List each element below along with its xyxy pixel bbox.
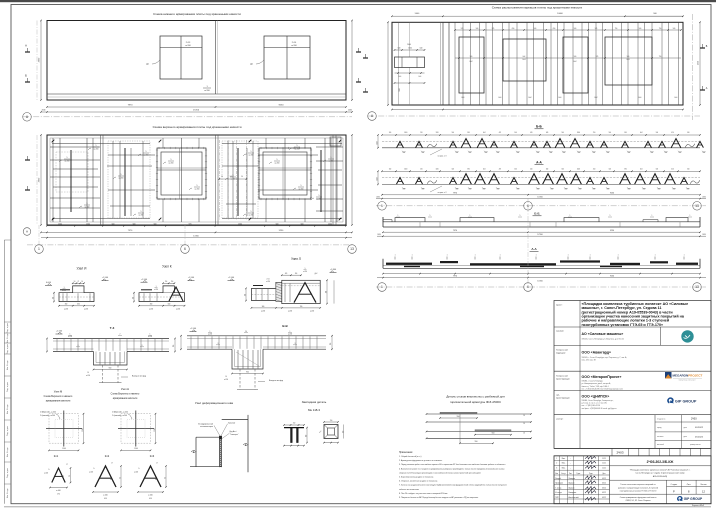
svg-text:ш 200: ш 200	[176, 308, 180, 310]
svg-text:ш 200: ш 200	[84, 308, 88, 310]
svg-text:Кл2: Кл2	[578, 152, 581, 154]
node L hatched joint strip	[276, 282, 282, 301]
svg-text:2030: 2030	[42, 110, 46, 112]
strip A-A band	[382, 170, 700, 172]
svg-text:390: 390	[467, 132, 470, 134]
plan 2 left vertical dim	[40, 135, 42, 225]
svg-text:Б-Б: Б-Б	[536, 125, 542, 129]
svg-text:2400: 2400	[407, 44, 411, 46]
svg-text:Кл1: Кл1	[628, 152, 631, 154]
right plan top dimension	[392, 15, 683, 17]
svg-text:17: 17	[111, 463, 113, 465]
svg-text:Узел М: Узел М	[54, 390, 62, 394]
svg-text:250: 250	[420, 132, 423, 134]
svg-text:1: 1	[381, 285, 383, 289]
svg-text:9230: 9230	[610, 275, 614, 277]
svg-text:Шукнин: Шукнин	[569, 487, 575, 489]
svg-text:ш 200: ш 200	[185, 45, 191, 47]
svg-text:Кл2: Кл2	[529, 97, 532, 99]
svg-text:Кл1: Кл1	[517, 152, 520, 154]
svg-text:Кл2: Кл2	[579, 189, 582, 191]
svg-text:390: 390	[624, 169, 627, 171]
svg-text:А19-05539-0043): А19-05539-0043)	[653, 475, 668, 478]
strip A-A stirrup triangles	[396, 178, 403, 185]
svg-text:500: 500	[562, 169, 565, 171]
svg-text:420: 420	[671, 132, 674, 134]
svg-text:Кл1: Кл1	[687, 189, 690, 191]
svg-text:3: 3	[556, 467, 557, 469]
plan 2 axis row A circle	[23, 228, 31, 236]
svg-text:500: 500	[452, 169, 455, 171]
svg-text:ш 200: ш 200	[310, 311, 314, 313]
svg-text:404: 404	[483, 132, 486, 134]
svg-text:1500: 1500	[238, 224, 242, 226]
svg-text:5: 5	[121, 174, 122, 176]
svg-text:11.21: 11.21	[602, 463, 606, 465]
svg-text:пом. 4-Н, ком. 38: пом. 4-Н, ком. 38	[582, 360, 596, 362]
plan 1 middle divider	[215, 21, 217, 95]
beam B-B dims	[383, 231, 700, 233]
svg-text:ш 200: ш 200	[195, 188, 200, 190]
plan 1 vertical axis dashes	[36, 21, 38, 101]
svg-text:5: 5	[87, 203, 88, 205]
node N detail	[121, 414, 151, 444]
svg-text:10000: 10000	[557, 13, 563, 15]
gip group logo (stamp)	[677, 496, 703, 501]
svg-text:Кн3: Кн3	[523, 56, 526, 58]
svg-text:Кл1: Кл1	[639, 97, 642, 99]
svg-text:+1.500: +1.500	[102, 277, 109, 279]
svg-text:38: 38	[62, 476, 64, 478]
svg-text:8. Пол 20 снабдять на участка: 8. Пол 20 снабдять на участках плиты тол…	[399, 492, 448, 495]
svg-text:MEGARONPROJECT: MEGARONPROJECT	[673, 373, 703, 377]
svg-text:Узел деформационного шва: Узел деформационного шва	[195, 401, 233, 405]
svg-text:03.22: 03.22	[602, 487, 606, 489]
svg-text:Кл1: Кл1	[54, 454, 59, 458]
svg-text:ш 200: ш 200	[261, 311, 265, 313]
svg-text:Кл1: Кл1	[499, 97, 502, 99]
svg-text:Инв. N подл.: Инв. N подл.	[7, 488, 9, 498]
strip B-B stirrup triangles	[397, 141, 404, 147]
svg-text:300: 300	[150, 304, 153, 306]
svg-text:ш 200: ш 200	[154, 289, 158, 291]
svg-text:Деталь стыков внахлестку с раз: Деталь стыков внахлестку с разбежкой для	[446, 394, 505, 398]
svg-text:3. Перед началом работ соосно: 3. Перед началом работ соосновбить карка…	[399, 464, 506, 466]
svg-text:13: 13	[695, 285, 699, 289]
svg-text:50: 50	[74, 281, 76, 283]
plan 2 square cross double lines	[179, 148, 181, 199]
svg-text:9230: 9230	[610, 230, 614, 232]
plan 2 outline	[47, 135, 346, 225]
svg-text:Кл1: Кл1	[462, 97, 465, 99]
svg-text:23: 23	[69, 475, 71, 477]
svg-text:ш 200: ш 200	[94, 148, 99, 150]
svg-text:1150: 1150	[436, 169, 439, 171]
svg-text:ш 400: ш 400	[148, 495, 152, 497]
svg-text:6. Опорные, косметные усадбю: 6. Опорные, косметные усадбю не показаны…	[399, 481, 438, 483]
svg-text:600: 600	[77, 304, 80, 306]
svg-text:Кн2: Кн2	[470, 61, 473, 63]
svg-text:16: 16	[523, 415, 525, 417]
beam A-A bold bars	[386, 263, 432, 265]
svg-text:6: 6	[184, 247, 186, 251]
svg-text:525: 525	[461, 28, 464, 30]
svg-text:2t (Верхний) - ш.200: 2t (Верхний) - ш.200	[112, 411, 128, 414]
svg-text:ш 200: ш 200	[275, 162, 280, 164]
svg-text:9230: 9230	[279, 105, 285, 107]
svg-text:ш 400: ш 400	[44, 472, 48, 474]
svg-text:1500: 1500	[58, 224, 62, 226]
node L top dims	[282, 274, 301, 276]
svg-text:500: 500	[627, 56, 630, 58]
svg-text:ш 200: ш 200	[224, 379, 228, 381]
svg-text:А-А: А-А	[531, 247, 537, 251]
svg-text:17: 17	[156, 463, 158, 465]
svg-text:ш 200: ш 200	[144, 154, 149, 156]
plan 2 right end box	[330, 137, 341, 146]
svg-text:4. Выполнение работ по стандб: 4. Выполнение работ по стандбип и армиро…	[399, 468, 505, 470]
svg-text:Листов: Листов	[700, 484, 706, 486]
stamp right: stage-list-sheets	[666, 480, 668, 494]
svg-text:ООО «ЦНИПСК»: ООО «ЦНИПСК»	[582, 395, 610, 399]
svg-text:Кл2: Кл2	[483, 189, 486, 191]
svg-text:Герметик: Герметик	[228, 423, 235, 425]
stage row	[554, 447, 711, 449]
plan 1 axis row A	[23, 116, 352, 118]
plan 2 middle dash-dot band	[218, 140, 220, 220]
title block row dividers	[554, 326, 711, 328]
svg-text:500: 500	[639, 28, 642, 30]
right plan left bay	[398, 22, 400, 105]
svg-text:500: 500	[562, 132, 565, 134]
svg-text:суб-: суб-	[556, 395, 560, 397]
svg-text:1. Общий балльной (м. п.): 1. Общий балльной (м. п.)	[399, 455, 422, 458]
svg-text:ООО «МегаронПроект»: ООО «МегаронПроект»	[582, 375, 622, 379]
svg-text:5: 5	[297, 145, 298, 147]
svg-text:420: 420	[285, 273, 288, 275]
svg-text:1000: 1000	[404, 169, 407, 171]
svg-text:420: 420	[530, 132, 533, 134]
svg-text:03.22: 03.22	[602, 492, 606, 494]
svg-text:Выпуски из фнд: Выпуски из фнд	[269, 379, 284, 382]
svg-text:17200: 17200	[193, 236, 199, 238]
right plan vertical carcass lines	[454, 22, 456, 105]
svg-text:проект:: проект:	[556, 305, 563, 307]
svg-text:Дп2: Дп2	[315, 273, 318, 275]
svg-text:Кл1: Кл1	[456, 152, 459, 154]
svg-text:Разраб.: Разраб.	[555, 478, 562, 480]
svg-text:500: 500	[514, 132, 517, 134]
plan 1 dimension rows	[47, 106, 346, 108]
svg-text:410: 410	[149, 498, 152, 500]
plan 2 bottom dimension rows	[47, 225, 346, 227]
svg-text:340: 340	[546, 169, 549, 171]
node L bottom dims	[251, 307, 320, 309]
svg-text:2Ч03: 2Ч03	[691, 418, 697, 421]
svg-text:Кл2: Кл2	[537, 189, 540, 191]
svg-text:500: 500	[476, 28, 479, 30]
svg-text:по прим. п. 8: по прим. п. 8	[438, 155, 447, 157]
svg-text:17200: 17200	[193, 110, 200, 112]
plan 1 outline	[47, 21, 346, 101]
svg-text:470: 470	[499, 169, 502, 171]
svg-text:Подп. и дата: Подп. и дата	[7, 468, 9, 478]
svg-text:750: 750	[659, 28, 662, 30]
svg-text:1500: 1500	[154, 428, 156, 432]
svg-text:ш 400: ш 400	[56, 490, 60, 492]
beam A-A axis circles	[376, 286, 706, 288]
stamp right: project name cell	[610, 479, 712, 481]
svg-text:Азанбовский: Азанбовский	[569, 496, 579, 499]
svg-text:ш 200: ш 200	[204, 90, 210, 92]
svg-text:1000: 1000	[404, 132, 407, 134]
svg-text:Узел Н: Узел Н	[121, 387, 129, 391]
svg-text:970: 970	[189, 224, 192, 226]
svg-text:дата: дата	[684, 427, 687, 429]
svg-text:Р: Р	[673, 490, 675, 494]
svg-text:03.2022: 03.2022	[695, 436, 704, 438]
svg-text:50: 50	[241, 176, 243, 178]
svg-text:420: 420	[671, 169, 674, 171]
svg-text:ш 200: ш 200	[288, 311, 292, 313]
svg-text:Генеральный: Генеральный	[556, 349, 568, 352]
svg-text:СМР4, Ч1, К2. Узлы. Разрезы: СМР4, Ч1, К2. Узлы. Разрезы	[625, 500, 651, 502]
svg-text:Инв. N подл.: Инв. N подл.	[7, 447, 9, 457]
svg-text:Кл2: Кл2	[497, 189, 500, 191]
svg-text:250: 250	[244, 294, 246, 296]
svg-text:ш 200: ш 200	[85, 206, 90, 208]
svg-text:41: 41	[155, 479, 157, 481]
svg-text:500: 500	[470, 56, 473, 58]
svg-text:Подп. и дата: Подп. и дата	[7, 426, 9, 436]
svg-text:900: 900	[246, 371, 249, 373]
svg-text:А-А: А-А	[536, 160, 542, 164]
svg-text:А: А	[25, 44, 27, 48]
svg-text:1000: 1000	[577, 169, 580, 171]
svg-text:7970: 7970	[453, 275, 457, 277]
plan 2 interior grid	[100, 135, 102, 225]
embedded part elevation	[284, 427, 304, 429]
svg-text:ш 200: ш 200	[86, 375, 90, 377]
svg-text:сборных поля В границах органи: сборных поля В границах организации и со…	[399, 471, 481, 474]
svg-text:1450: 1450	[376, 141, 378, 145]
svg-text:470: 470	[499, 132, 502, 134]
svg-text:Кл1: Кл1	[537, 152, 540, 154]
beam elevation A-A outline	[383, 267, 700, 269]
svg-text:основан: основан	[657, 436, 663, 438]
svg-text:Кл2: Кл2	[679, 152, 682, 154]
svg-text:1: 1	[556, 458, 557, 460]
svg-text:2030: 2030	[348, 110, 352, 112]
svg-text:5: 5	[171, 159, 172, 161]
svg-text:2030: 2030	[702, 196, 706, 198]
plan 2 axis circles	[27, 244, 352, 246]
strips bottom dims	[382, 194, 700, 196]
svg-text:Дата: Дата	[602, 473, 605, 475]
svg-text:Кл1: Кл1	[593, 189, 596, 191]
svg-text:7970: 7970	[453, 193, 457, 195]
expert row mini cells	[654, 415, 656, 449]
svg-text:13: 13	[695, 204, 699, 208]
svg-text:540: 540	[398, 48, 401, 50]
beam elevation B-B outline	[383, 226, 700, 228]
megaron logo	[665, 372, 672, 379]
svg-text:2030: 2030	[702, 234, 706, 236]
revision table	[609, 456, 611, 504]
svg-text:650: 650	[512, 28, 515, 30]
svg-text:Проверил: Проверил	[555, 483, 563, 485]
svg-text:750: 750	[615, 28, 618, 30]
svg-text:250: 250	[330, 343, 332, 346]
svg-text:1: 1	[38, 247, 40, 251]
svg-text:Узел И: Узел И	[77, 266, 88, 270]
svg-text:9. Покрытые бетона по АР. Пер: 9. Покрытые бетона по АР. Перед бетонорб…	[399, 496, 479, 499]
svg-text:1500: 1500	[82, 428, 84, 432]
svg-text:Изм.: Изм.	[562, 463, 566, 465]
svg-text:525: 525	[492, 28, 495, 30]
svg-text:7970: 7970	[128, 105, 134, 107]
svg-text:ш 200: ш 200	[64, 308, 68, 310]
svg-text:13: 13	[350, 247, 354, 251]
svg-text:500: 500	[230, 176, 233, 178]
svg-text:Кл2: Кл2	[565, 189, 568, 191]
svg-text:Кл2: Кл2	[643, 189, 646, 191]
svg-text:196105, г. Санкт-Петербург, пе: 196105, г. Санкт-Петербург, пер. Перспек…	[582, 356, 628, 359]
svg-text:Кн3: Кн3	[627, 59, 630, 61]
svg-text:ш 200: ш 200	[249, 154, 254, 156]
svg-text:500: 500	[673, 28, 676, 30]
svg-text:10: 10	[87, 372, 89, 374]
svg-text:ш 200: ш 200	[295, 148, 300, 150]
svg-text:1000: 1000	[408, 48, 412, 50]
svg-text:ш 200: ш 200	[249, 214, 254, 216]
svg-text:Выпуски из фнд: Выпуски из фнд	[132, 375, 147, 378]
node L right box	[282, 280, 320, 303]
splice detail bars	[427, 413, 532, 415]
svg-text:1500: 1500	[134, 448, 138, 450]
svg-text:9230: 9230	[610, 193, 614, 195]
svg-text:заказчик:: заказчик:	[556, 331, 564, 333]
svg-text:Подп. и дата: Подп. и дата	[7, 382, 9, 392]
svg-text:по прим. п. 8: по прим. п. 8	[438, 192, 447, 194]
svg-text:ш 200: ш 200	[288, 334, 292, 336]
svg-text:Кл1: Кл1	[550, 152, 553, 154]
svg-text:525: 525	[596, 56, 599, 58]
svg-text:Инв. N подл.: Инв. N подл.	[7, 360, 9, 370]
strips axis circles	[376, 205, 706, 207]
svg-text:ш 200: ш 200	[148, 336, 152, 338]
svg-text:Кл2: Кл2	[628, 189, 631, 191]
svg-text:5: 5	[301, 185, 302, 187]
svg-text:Схема армирования фундаментной: Схема армирования фундаментной плиты	[620, 496, 657, 499]
svg-text:750: 750	[659, 56, 662, 58]
svg-text:5: 5	[251, 211, 252, 213]
svg-text:150: 150	[171, 281, 174, 283]
plan 2 section marks left	[25, 159, 30, 161]
svg-text:Кл1: Кл1	[559, 97, 562, 99]
svg-text:4950: 4950	[698, 61, 700, 65]
svg-text:250: 250	[420, 169, 423, 171]
deformation joint detail	[195, 437, 197, 467]
svg-text:проектировщик:: проектировщик:	[556, 397, 570, 399]
right plan internal dims row	[455, 29, 681, 31]
svg-text:Кл1: Кл1	[675, 97, 678, 99]
svg-text:500: 500	[656, 169, 659, 171]
svg-text:390: 390	[467, 169, 470, 171]
plan 1 left vertical dim	[40, 21, 42, 101]
svg-text:Кл1: Кл1	[651, 152, 654, 154]
svg-text:Инв. N подл.: Инв. N подл.	[7, 404, 9, 414]
svg-text:Кл1: Кл1	[497, 152, 500, 154]
svg-text:390: 390	[624, 132, 627, 134]
svg-text:GIP GROUP: GIP GROUP	[675, 399, 697, 403]
svg-text:340: 340	[546, 132, 549, 134]
svg-text:тел.: +7 (812) 640-47-16: тел.: +7 (812) 640-47-16	[582, 405, 601, 407]
svg-text:500: 500	[534, 28, 537, 30]
svg-text:5: 5	[331, 157, 332, 159]
svg-text:200: 200	[305, 435, 307, 438]
svg-text:500: 500	[687, 169, 690, 171]
svg-text:Инв. N подл.: Инв. N подл.	[7, 333, 9, 343]
svg-text:50: 50	[221, 176, 223, 178]
plan 2 scattered rebar labels	[59, 160, 62, 162]
svg-text:550: 550	[457, 416, 460, 418]
svg-text:Кн2: Кн2	[574, 61, 577, 63]
svg-text:75: 75	[78, 281, 80, 283]
svg-text:Подп. и дата: Подп. и дата	[7, 323, 9, 333]
svg-text:Дод Анті: Дод Анті	[230, 430, 237, 433]
svg-text:500: 500	[325, 291, 327, 293]
svg-text:«Площадка комплекса турбинных: «Площадка комплекса турбинных лопаток» А…	[630, 468, 691, 471]
svg-text:23: 23	[164, 477, 166, 479]
svg-text:900: 900	[109, 367, 112, 369]
svg-text:ш 200: ш 200	[139, 214, 144, 216]
svg-text:2030: 2030	[376, 196, 380, 198]
svg-text:5: 5	[251, 151, 252, 153]
svg-text:404: 404	[640, 169, 643, 171]
svg-text:150: 150	[330, 420, 333, 422]
svg-text:Мн 118-3: Мн 118-3	[308, 408, 320, 412]
svg-text:армирования капители: армирования капители	[113, 398, 138, 400]
cross-section T-3 drawing	[53, 338, 169, 340]
svg-text:Лазарев: Лазарев	[569, 478, 576, 480]
svg-text:150: 150	[293, 423, 296, 425]
svg-text:GIP GROUP: GIP GROUP	[684, 497, 703, 501]
svg-text:250: 250	[132, 297, 134, 299]
svg-text:Кн3: Кн3	[523, 59, 526, 61]
svg-text:Схема нижнего армирования плит: Схема нижнего армирования плиты под краш…	[153, 12, 241, 16]
svg-text:250: 250	[593, 132, 596, 134]
svg-text:Б: Б	[25, 74, 27, 78]
svg-text:1000: 1000	[577, 132, 580, 134]
svg-text:500: 500	[133, 224, 136, 226]
svg-text:196105, Санкт-Петербург, ул. В: 196105, Санкт-Петербург, ул. Ватутина, д…	[582, 338, 625, 341]
main stamp outer	[554, 456, 711, 504]
plan 1 opening square right	[264, 36, 310, 79]
svg-text:540: 540	[420, 48, 423, 50]
svg-text:5: 5	[67, 157, 68, 159]
svg-text:газотурбинных установок ГТЭ-65: газотурбинных установок ГТЭ-65 и ГТЭ-170…	[582, 323, 664, 327]
plan 2 corner tick marks	[52, 140, 55, 143]
svg-text:ш 400: ш 400	[134, 471, 138, 473]
svg-text:+1.800: +1.800	[330, 269, 337, 271]
right plan section marks	[363, 57, 368, 59]
svg-text:500: 500	[112, 224, 115, 226]
svg-text:Т-3: Т-3	[110, 326, 115, 330]
sheet outer bottom edge	[4, 506, 711, 508]
svg-text:5: 5	[197, 185, 198, 187]
svg-text:+1.500: +1.500	[56, 331, 63, 333]
